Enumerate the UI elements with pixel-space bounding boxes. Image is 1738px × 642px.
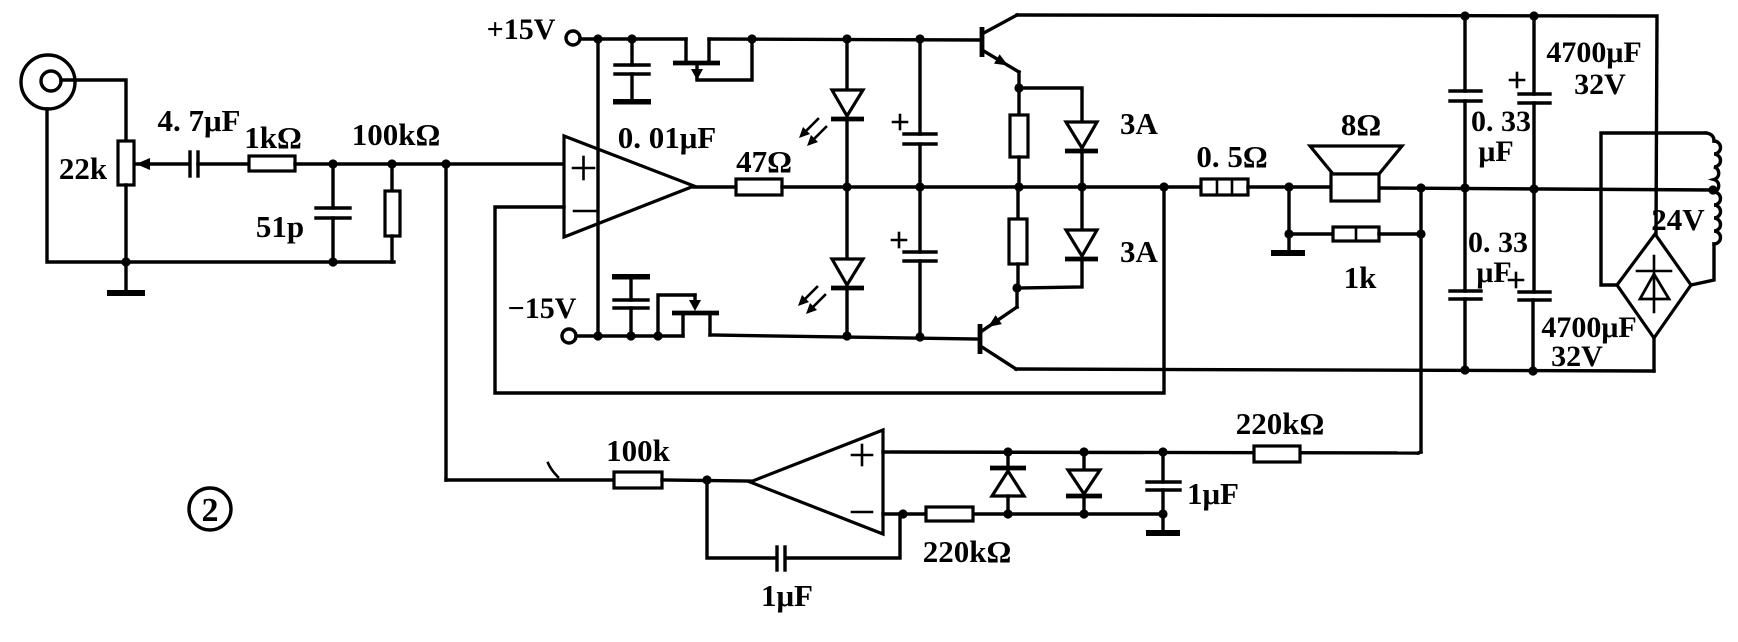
node: Q2 emitter [1014, 83, 1023, 92]
wire: U2 + input line [883, 452, 1418, 453]
wire: U2 - input line [883, 512, 1163, 515]
wire: negative rail (Q3 collector to bridge -) [1016, 369, 1654, 371]
node: servo sense junction [441, 159, 450, 168]
resistor 100k (servo out) [614, 472, 662, 488]
ground (input) [107, 257, 145, 296]
wire: connector shell down to ground rail [47, 109, 394, 262]
svg-text:220kΩ: 220kΩ [1236, 406, 1325, 441]
svg-text:−15V: −15V [508, 292, 577, 325]
node: 100k junction [387, 159, 396, 168]
svg-text:8Ω: 8Ω [1341, 107, 1381, 142]
wire: op-amp output bus [694, 185, 736, 188]
svg-text:22k: 22k [59, 151, 108, 186]
wire: 1k to op-amp + input [295, 162, 564, 165]
node: zobel right [1416, 229, 1425, 238]
input connector J1 [21, 55, 75, 109]
svg-text:32V: 32V [1551, 340, 1603, 373]
tick mark on servo line [548, 463, 558, 477]
wire: bridge AC left to transformer top [1601, 133, 1706, 285]
node: transformer center tap [1708, 185, 1717, 194]
resistor 47 ohm [736, 179, 782, 195]
svg-text:47Ω: 47Ω [736, 144, 792, 179]
svg-text:μF: μF [1478, 135, 1513, 168]
resistor 0.5 ohm [1201, 179, 1248, 195]
svg-text:1μF: 1μF [1187, 476, 1239, 511]
node: Q3 emitter [1012, 283, 1021, 292]
resistor 220k ohm (+ line) [1254, 446, 1300, 462]
ground (zobel) [1271, 234, 1305, 256]
wire: + line corner up to sense vertical [1418, 452, 1421, 453]
svg-text:32V: 32V [1574, 68, 1626, 101]
svg-text:4700μF: 4700μF [1546, 36, 1641, 69]
svg-text:51p: 51p [256, 209, 304, 244]
transformer secondary coil 24V [1691, 133, 1721, 285]
diode (servo clamp, cathode down) [1066, 452, 1102, 514]
svg-text:100k: 100k [606, 433, 671, 468]
potentiometer 22k [118, 141, 134, 262]
JFET current regulator Q4 (in -15V rail) [658, 295, 719, 336]
op-amp U1 [564, 136, 694, 237]
resistor 100k ohm (input shunt) [385, 164, 400, 262]
wire: servo output down-feed vertical [444, 164, 447, 480]
U2 minus input mark [852, 511, 872, 514]
resistor emitter (lower) [1009, 187, 1027, 288]
svg-text:0. 01μF: 0. 01μF [618, 120, 717, 155]
svg-text:1kΩ: 1kΩ [244, 120, 302, 155]
node: U1 V- [593, 331, 602, 340]
wire: U1 supply vertical [596, 39, 599, 336]
LED D2 (lower bias) [831, 187, 864, 336]
node: 3A diode mid [1077, 182, 1086, 191]
resistor emitter (upper) [1010, 88, 1028, 187]
node: Q4 gate tie [653, 331, 662, 340]
svg-text:0. 5Ω: 0. 5Ω [1196, 139, 1267, 174]
node: cap top/bottom [1158, 447, 1167, 456]
diode (servo clamp, cathode up) [990, 452, 1026, 514]
diode 3A (lower) [1017, 187, 1098, 288]
svg-text:+15V: +15V [487, 13, 556, 46]
capacitor 0.01uF (V- decoupling) [612, 274, 650, 336]
svg-text:220kΩ: 220kΩ [923, 534, 1012, 569]
figure number 2 [189, 488, 231, 530]
speaker 8 ohm [1310, 146, 1402, 201]
node: clamp diode 1 top/bottom [1003, 447, 1012, 456]
wire: top collector rail to bridge + [1017, 15, 1657, 234]
node: cap branch top [915, 34, 924, 43]
node: - input feedback junction [898, 509, 907, 518]
U2 plus input mark [852, 445, 872, 465]
terminal -15V [562, 329, 683, 343]
wire: -rail to PNP base [710, 335, 978, 339]
wire: speaker to supply midpoint [1379, 188, 1713, 190]
node: Q1 gate tie [747, 34, 756, 43]
svg-text:μF: μF [1476, 256, 1511, 289]
wire: 0.5ohm to speaker [1248, 185, 1331, 188]
capacitor 0.33uF (upper) [1450, 16, 1481, 188]
node: caps bottom rail [1460, 365, 1469, 374]
wiper arrow of pot [136, 158, 188, 170]
node: decoupling cap top [627, 34, 636, 43]
wire: output sense vertical to servo [1419, 188, 1422, 452]
svg-text:4. 7μF: 4. 7μF [157, 103, 240, 138]
Zobel: wire down from bus [1287, 187, 1290, 234]
node: decoupling cap bottom [626, 331, 635, 340]
node: LED2 bottom [842, 331, 851, 340]
op-amp U2 (servo, points left) [750, 430, 883, 534]
capacitor 4700uF 32V (upper) [1510, 16, 1550, 189]
wire: connector pin to pot top [61, 80, 126, 141]
transistor Q3 PNP (bottom output) [980, 288, 1017, 369]
wire: bridge + down from top rail (done above), bridge - to neg rail [1652, 338, 1655, 371]
resistor 220k ohm (- line) [926, 507, 973, 521]
node: 51p junction [328, 159, 337, 168]
node: cap branch mid [915, 182, 924, 191]
capacitor 1uF (servo filter) [1147, 452, 1180, 514]
svg-text:3A: 3A [1120, 234, 1159, 269]
wire cap to R 1k [198, 162, 249, 165]
LED D1 light arrows [799, 119, 826, 146]
capacitor 4700uF 32V (lower) [1509, 189, 1550, 371]
node: sense tap right of speaker [1416, 183, 1425, 192]
node: LED1 top [842, 34, 851, 43]
node: feedback tap [1159, 182, 1168, 191]
LED D2 light arrows [798, 287, 825, 314]
resistor 1k (zobel) [1289, 227, 1421, 241]
JFET current regulator Q1 (in +15V rail) [673, 39, 752, 80]
svg-text:3A: 3A [1120, 106, 1159, 141]
node: caps mid rail [1460, 183, 1469, 192]
node: servo feedback tap [702, 475, 711, 484]
node: caps top rail [1460, 11, 1469, 20]
svg-text:1k: 1k [1344, 260, 1378, 295]
electrolytic cap (upper, driver branch) [893, 39, 936, 187]
transistor Q2 NPN (top output) [982, 15, 1019, 88]
U1 plus input mark [573, 157, 594, 179]
U1 minus input mark [574, 210, 596, 213]
node: clamp diode 2 top/bottom [1079, 447, 1088, 456]
node: cap branch bottom [915, 332, 924, 341]
resistor 1k ohm [249, 156, 295, 171]
LED D1 (upper bias) [831, 39, 864, 187]
wire: 100k to servo op-amp [662, 480, 750, 481]
wire: servo output line [446, 478, 614, 481]
capacitor 51p [316, 164, 350, 267]
wire: bus 47ohm to 0.5ohm [782, 185, 1201, 188]
node: zobel corner [1284, 229, 1293, 238]
capacitor 0.33uF (lower) [1450, 188, 1481, 370]
wire: U1 inverting input feedback loop [495, 187, 1164, 393]
wire: +rail to NPN base [709, 39, 980, 40]
node: emitter resistors mid [1014, 182, 1023, 191]
capacitor 1uF (servo integrator feedback) [707, 480, 900, 570]
terminal +15V [566, 31, 686, 45]
bridge inner diode [1637, 256, 1671, 312]
capacitor 0.01uF (V+ decoupling) [613, 39, 651, 105]
diode 3A (upper) [1019, 88, 1098, 187]
node: 1k tap [1284, 182, 1293, 191]
node: LED chain mid [842, 182, 851, 191]
bridge rectifier [1617, 234, 1691, 338]
svg-text:1μF: 1μF [761, 578, 813, 613]
svg-text:2: 2 [202, 492, 219, 529]
svg-text:24V: 24V [1651, 202, 1705, 237]
ground (servo filter) [1146, 514, 1180, 536]
svg-text:0. 33: 0. 33 [1468, 226, 1528, 259]
electrolytic cap (lower, driver branch) [892, 187, 936, 336]
svg-text:100kΩ: 100kΩ [352, 117, 441, 152]
node: U1 V+ [593, 34, 602, 43]
capacitor 4.7uF [190, 152, 198, 176]
svg-text:0. 33: 0. 33 [1471, 105, 1531, 138]
